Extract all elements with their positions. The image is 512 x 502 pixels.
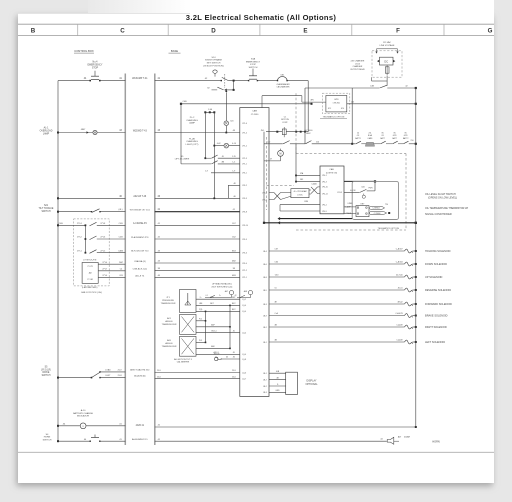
svg-text:27Y-4: 27Y-4: [102, 262, 107, 264]
svg-text:45: 45: [233, 330, 235, 332]
svg-text:TRANSDUCER: TRANSDUCER: [162, 323, 177, 326]
svg-text:TELEMATICS OPTION: TELEMATICS OPTION: [378, 227, 400, 230]
svg-text:OPTIONAL: OPTIONAL: [305, 383, 318, 386]
svg-text:A021-B T-46: A021-B T-46: [133, 195, 147, 198]
svg-text:TILT TONGUE: TILT TONGUE: [39, 208, 54, 210]
wire display pin D: [269, 385, 286, 387]
svg-text:C-SEN04: C-SEN04: [372, 208, 379, 210]
transducer collector vertical B: [229, 305, 231, 348]
wire display pin 4LB: [269, 372, 286, 374]
wire solenoid row LEFT SOLENOID: [269, 341, 404, 343]
svg-text:EMERGENCY: EMERGENCY: [246, 61, 261, 63]
svg-text:JB-3: JB-3: [263, 392, 267, 394]
svg-text:T20: T20: [385, 204, 388, 206]
svg-text:LIFT & LOWER: LIFT & LOWER: [175, 159, 190, 161]
svg-text:AMS TO(AUTH) 350: AMS TO(AUTH) 350: [130, 369, 150, 372]
svg-text:ANGLE: ANGLE: [165, 320, 173, 323]
svg-text:115 VAC: 115 VAC: [383, 41, 392, 44]
svg-text:JQ-8: JQ-8: [242, 359, 246, 361]
svg-text:JP4-2: JP4-2: [322, 204, 327, 206]
wire GPS output row: [347, 103, 416, 105]
wire transducer row 320.8: [196, 320, 206, 322]
wire vertical x352: [351, 88, 353, 144]
joystick switch row 2 y239.0: [85, 238, 87, 240]
svg-text:(OPENS ON LOW LEVEL): (OPENS ON LOW LEVEL): [428, 196, 457, 199]
svg-text:41(B)H: 41(B)H: [404, 437, 411, 439]
heavy bus wire pair: [278, 217, 281, 220]
svg-text:RIGHT SOLENOID: RIGHT SOLENOID: [425, 325, 447, 329]
svg-text:CHARGING: CHARGING: [186, 119, 198, 122]
svg-text:C-A 0YB: C-A 0YB: [395, 312, 403, 315]
wire display pin 4B: [269, 379, 286, 381]
svg-text:A5-ACM (A): A5-ACM (A): [134, 374, 146, 377]
svg-text:4E-02: 4E-02: [398, 301, 403, 303]
svg-text:C40: C40: [267, 141, 270, 143]
wire row 172.8: [211, 172, 240, 174]
wire pin row A right segment: [155, 262, 240, 264]
svg-text:C63: C63: [119, 275, 122, 277]
wire into CAB pin JP4-2: [280, 204, 320, 206]
svg-text:IGN/STOP/BASE: IGN/STOP/BASE: [205, 59, 222, 62]
svg-text:46: 46: [233, 357, 235, 359]
GPS telematics dashed box: [322, 93, 350, 113]
CAB box pin labels: [322, 175, 328, 213]
svg-text:JP4-10: JP4-10: [242, 225, 248, 227]
svg-text:TRANSDUCER: TRANSDUCER: [162, 345, 177, 348]
svg-text:24V CHARGER: 24V CHARGER: [351, 60, 365, 63]
svg-text:211: 211: [368, 132, 371, 134]
loop tag C-T0604: [369, 212, 387, 215]
svg-text:4-02: 4-02: [217, 143, 221, 145]
wire vertical x214: [213, 112, 215, 198]
svg-text:JB-4: JB-4: [263, 251, 267, 253]
wire into CAB pin JP4-1: [296, 174, 320, 176]
svg-text:OVERLOAD: OVERLOAD: [40, 129, 53, 132]
svg-text:S21: S21: [44, 205, 49, 207]
display connector box: [286, 372, 298, 394]
svg-text:JP1-2: JP1-2: [242, 145, 247, 147]
wire vertical x296: [295, 144, 297, 182]
svg-text:27Y-6: 27Y-6: [100, 237, 105, 239]
battery disconnect contact row: [355, 132, 408, 139]
joystick pin row C y277.4: [98, 276, 125, 278]
svg-text:WTONGUE OK T-51: WTONGUE OK T-51: [130, 209, 151, 211]
svg-text:AL-1: AL-1: [44, 127, 50, 130]
svg-text:40 + PROGRAM: 40 + PROGRAM: [294, 190, 308, 193]
wire heavy into relay box top: [344, 180, 375, 182]
wire joystick row1 right segment: [155, 224, 240, 226]
svg-text:PL2: PL2: [199, 319, 202, 321]
wire display pin GND: [269, 391, 286, 393]
svg-text:51: 51: [275, 288, 277, 290]
svg-text:TELEMATICS OPTION: TELEMATICS OPTION: [323, 116, 345, 119]
svg-text:No.4: No.4: [93, 62, 99, 64]
DC converter box: [380, 57, 394, 65]
svg-text:STOP: STOP: [250, 64, 256, 66]
wire vertical x264: [263, 132, 265, 223]
svg-text:CHARGER: CHARGER: [353, 65, 363, 68]
wire corner down x308: [287, 80, 308, 82]
svg-text:C4B: C4B: [370, 86, 375, 88]
svg-text:C8A03A-(3): C8A03A-(3): [134, 260, 146, 263]
svg-text:24: 24: [357, 132, 359, 134]
svg-text:BATT1: BATT1: [355, 137, 360, 140]
svg-text:PL-AV: PL-AV: [189, 137, 196, 140]
wire joystick row2 right segment: [155, 238, 240, 240]
svg-text:520: 520: [230, 121, 233, 123]
svg-text:BRAKE SOLENOID: BRAKE SOLENOID: [425, 314, 448, 318]
svg-text:LINE VOLTAGE: LINE VOLTAGE: [380, 44, 395, 47]
svg-text:C4B: C4B: [119, 237, 124, 239]
svg-text:JP4-10: JP4-10: [322, 187, 328, 189]
svg-text:STOP: STOP: [92, 67, 99, 69]
svg-text:JA2: JA2: [88, 272, 91, 275]
svg-text:210: 210: [316, 141, 319, 143]
svg-text:J-1: J-1: [205, 295, 207, 297]
svg-text:JOYSTICK-P/N: JOYSTICK-P/N: [83, 259, 97, 261]
wire horn row right segment: [155, 440, 387, 442]
svg-text:C60: C60: [275, 262, 278, 264]
svg-text:CB/CHARGER: CB/CHARGER: [277, 85, 291, 88]
svg-text:JQ-4: JQ-4: [242, 311, 246, 313]
svg-text:W2DMD T-43: W2DMD T-43: [133, 130, 148, 132]
svg-text:TRANSDUCER: TRANSDUCER: [161, 302, 176, 305]
svg-text:DC: DC: [384, 59, 388, 63]
svg-text:ALLMOTION TILT II: ALLMOTION TILT II: [174, 358, 192, 361]
svg-text:M: M: [280, 153, 282, 155]
svg-text:GND: GND: [275, 390, 280, 392]
svg-text:SWITCH: SWITCH: [43, 440, 52, 442]
wire left rail vertical: [57, 81, 59, 442]
header grid row: [18, 23, 494, 25]
wire key to lamp vertical: [225, 92, 227, 121]
svg-text:2Y GR: 2Y GR: [87, 279, 93, 281]
svg-text:4P0: 4P0: [310, 100, 313, 102]
svg-text:48: 48: [233, 183, 235, 185]
svg-text:C: C: [120, 28, 125, 35]
wire transducer row 332.6: [196, 332, 240, 334]
motor indicator M: [278, 150, 284, 156]
program logic module: [281, 192, 291, 194]
transducer collector vertical A: [205, 311, 207, 342]
svg-text:PL3: PL3: [199, 340, 202, 342]
svg-text:A-CRANE-P4: A-CRANE-P4: [133, 222, 147, 225]
svg-text:JP1-3: JP1-3: [242, 158, 247, 160]
svg-text:CONTROL BOX: CONTROL BOX: [74, 49, 94, 53]
wire solenoid row REVERSE SOLENOID: [269, 289, 404, 291]
svg-text:(LIGHTS ON): (LIGHTS ON): [326, 172, 337, 174]
svg-text:25-9: 25-9: [157, 370, 161, 372]
svg-text:C-A-4E: C-A-4E: [396, 323, 403, 326]
svg-text:(NOT SWITCHED 0-00): (NOT SWITCHED 0-00): [212, 286, 233, 288]
svg-text:LEFT SOLENOID: LEFT SOLENOID: [425, 340, 445, 344]
svg-text:JQ-2: JQ-2: [242, 299, 246, 301]
svg-text:BLH-CELICR T10: BLH-CELICR T10: [131, 251, 149, 253]
svg-text:T-60: T-60: [275, 275, 279, 277]
svg-text:JB-6: JB-6: [263, 264, 267, 266]
controller left pin labels: [242, 123, 248, 380]
svg-text:F: F: [396, 28, 400, 35]
wire drive row load right segment: [155, 372, 240, 374]
svg-text:C4B: C4B: [182, 101, 187, 103]
svg-text:C-T0604: C-T0604: [374, 213, 381, 215]
joystick dashed enclosure: [74, 219, 110, 286]
wire vertical x305 from charger row: [304, 88, 306, 144]
wire beeper row 359: [221, 358, 240, 360]
wire main feed row y80.5: [58, 80, 90, 82]
svg-text:OUTPUT RELAY: OUTPUT RELAY: [350, 68, 365, 71]
transposed pair right crossover: [309, 189, 311, 191]
svg-text:A044/4MM-P-15: A044/4MM-P-15: [132, 438, 148, 441]
svg-text:HORN: HORN: [432, 440, 440, 443]
wire solenoid row HOLDING SOLENOID: [269, 250, 404, 252]
svg-text:DOWN SOLENOID: DOWN SOLENOID: [425, 262, 447, 266]
svg-text:CAB JOYSTICK (OH): CAB JOYSTICK (OH): [81, 291, 102, 294]
svg-text:C4B3: C4B3: [118, 250, 124, 252]
svg-text:4P-2: 4P-2: [328, 108, 331, 110]
svg-text:C6M: C6M: [304, 201, 308, 203]
svg-text:JB-9: JB-9: [263, 315, 267, 317]
svg-text:JB-2: JB-2: [263, 386, 267, 388]
svg-text:4P-4: 4P-4: [341, 108, 344, 110]
svg-text:BATT2: BATT2: [403, 137, 408, 140]
svg-text:210: 210: [411, 140, 414, 142]
wire vertical x205: [204, 112, 206, 158]
wire solenoid row RIGHT SOLENOID: [269, 326, 404, 328]
svg-text:CAM: CAM: [252, 110, 257, 113]
svg-text:JP1-4: JP1-4: [242, 132, 247, 134]
svg-text:JP4-4: JP4-4: [242, 263, 247, 265]
svg-text:A07: A07: [398, 436, 401, 439]
svg-text:JB-1: JB-1: [263, 342, 267, 344]
sensor bulb A07: [229, 291, 233, 295]
wire joystick row3 right segment: [155, 252, 240, 254]
svg-text:C-A 007: C-A 007: [396, 247, 403, 250]
wire transducer row 354.4: [196, 353, 240, 355]
svg-text:SWITCH: SWITCH: [42, 375, 51, 377]
svg-text:2(3): 2(3): [199, 309, 203, 311]
bus bulkhead line right: [154, 74, 156, 446]
svg-text:25-9: 25-9: [232, 370, 236, 372]
GPS module LTE-900: [326, 96, 347, 112]
fuse F1: [385, 67, 389, 73]
transposed pair left crossover: [269, 192, 274, 194]
svg-text:JQ-4: JQ-4: [242, 305, 246, 307]
svg-text:C-A66: C-A66: [311, 182, 316, 185]
joystick common vertical: [84, 225, 86, 252]
svg-text:JP1-1: JP1-1: [242, 277, 247, 279]
wire solenoid row UP SOLENOID: [269, 276, 404, 278]
svg-text:2007: 2007: [119, 262, 123, 264]
wire transducer row 299.2: [196, 298, 240, 300]
svg-text:27Y-4: 27Y-4: [77, 223, 82, 225]
svg-text:LIGHT (OPT): LIGHT (OPT): [186, 144, 199, 146]
svg-text:2Y YR: 2Y YR: [87, 266, 93, 268]
svg-text:4A05 41: 4A05 41: [136, 424, 145, 427]
svg-text:A07: A07: [225, 290, 228, 293]
joystick grip box: [82, 263, 98, 284]
wire transducer row 305.4: [196, 304, 240, 306]
svg-text:25-6: 25-6: [157, 376, 161, 378]
seal contact row: [205, 297, 232, 299]
svg-text:LR-2 (LR): LR-2 (LR): [41, 369, 51, 371]
charger dashed enclosure: [372, 51, 402, 77]
svg-text:JB-5: JB-5: [263, 290, 267, 292]
svg-text:D: D: [211, 28, 216, 35]
relay contact 4-LOW: [374, 181, 376, 191]
svg-text:LEFT: LEFT: [106, 375, 112, 377]
svg-text:JB-1: JB-1: [263, 373, 267, 375]
svg-text:REVERSE SOLENOID: REVERSE SOLENOID: [425, 288, 451, 292]
wire into CAB pin JP4-3: [296, 181, 320, 183]
svg-text:45: 45: [222, 156, 224, 158]
bus bulkhead line left: [124, 74, 126, 446]
wire lamp row right segment to controller: [155, 132, 240, 134]
svg-text:JP1-1: JP1-1: [242, 164, 247, 166]
svg-text:JP4-1: JP4-1: [322, 175, 327, 177]
svg-text:(IN IDLE POSITION): (IN IDLE POSITION): [203, 65, 223, 67]
svg-text:BMC: BMC: [306, 133, 311, 135]
wire row 185.3 with corner: [228, 184, 240, 186]
svg-text:JY3-4: JY3-4: [262, 199, 267, 201]
svg-text:40-51: 40-51: [398, 287, 403, 289]
wire row 41 heavy right segment: [155, 211, 240, 213]
wire solenoid row DOWN SOLENOID: [269, 263, 404, 265]
svg-text:27Y-8: 27Y-8: [100, 223, 105, 225]
svg-text:A6Y09: A6Y09: [214, 353, 220, 356]
footer rule: [18, 451, 494, 453]
svg-text:JB-3: JB-3: [263, 304, 267, 306]
wire pin row B right segment: [155, 269, 240, 271]
svg-text:C67: C67: [275, 249, 278, 251]
svg-text:SWITCH: SWITCH: [41, 211, 50, 213]
telematics dashed boundary: [295, 93, 297, 153]
svg-text:JB-7: JB-7: [263, 379, 267, 381]
svg-text:JP4-1: JP4-1: [242, 173, 247, 175]
svg-text:27Y-5: 27Y-5: [100, 250, 105, 252]
svg-text:JB-2: JB-2: [263, 327, 267, 329]
svg-text:JQ-6: JQ-6: [242, 372, 246, 374]
svg-text:LOGIC: LOGIC: [297, 195, 303, 197]
svg-text:S3A: S3A: [251, 58, 256, 61]
svg-text:45: 45: [233, 352, 235, 354]
wire transducer row 311.4: [196, 310, 240, 312]
svg-text:4M: 4M: [221, 162, 224, 164]
svg-text:42: 42: [235, 295, 237, 297]
svg-text:FORWARD SOLENOID: FORWARD SOLENOID: [425, 302, 452, 306]
wire solenoid row BRAKE SOLENOID: [269, 315, 404, 317]
svg-text:41A BREAKER: 41A BREAKER: [276, 83, 290, 86]
svg-text:A08: A08: [244, 290, 247, 293]
svg-text:INDICATOR: INDICATOR: [77, 415, 89, 418]
svg-text:EMERGENCY: EMERGENCY: [87, 64, 102, 66]
svg-text:LAMP: LAMP: [189, 122, 195, 125]
charger relay wires: [371, 77, 373, 81]
svg-text:CAL BEEPER: CAL BEEPER: [177, 361, 190, 364]
svg-text:LTE-900: LTE-900: [333, 103, 340, 105]
svg-text:3.2L Electrical Schematic (Al: 3.2L Electrical Schematic (All Options): [186, 13, 337, 22]
svg-text:JQ-4: JQ-4: [242, 332, 246, 334]
svg-text:LOAD: LOAD: [105, 369, 111, 372]
wire row 46 y198.3: [57, 197, 59, 199]
svg-text:1-15: 1-15: [232, 156, 236, 158]
svg-text:JP4-6: JP4-6: [242, 253, 247, 255]
svg-text:PRESSURE: PRESSURE: [162, 300, 174, 302]
measurement bracket: [377, 48, 398, 50]
svg-text:27Y-1: 27Y-1: [77, 250, 82, 252]
svg-text:A2L-8 T4: A2L-8 T4: [135, 274, 145, 277]
svg-text:CHARGING: CHARGING: [186, 140, 198, 143]
controller main box: [240, 108, 269, 397]
svg-text:G: G: [488, 28, 493, 35]
svg-text:4-LOW: 4-LOW: [350, 190, 356, 192]
svg-text:25-6: 25-6: [232, 376, 236, 378]
controller right pin labels: [262, 192, 267, 394]
svg-text:40-T-60: 40-T-60: [396, 274, 403, 276]
svg-text:C4: C4: [120, 269, 122, 271]
svg-text:C4B: C4B: [59, 223, 64, 225]
joystick pin row A y264.2: [98, 263, 125, 265]
svg-text:27Y-2: 27Y-2: [77, 237, 82, 239]
wire transducer row 326.8: [196, 326, 230, 328]
svg-text:1-9: 1-9: [232, 170, 235, 172]
svg-text:(LASTWATCHED): (LASTWATCHED): [82, 286, 98, 289]
wire solenoid row FORWARD SOLENOID: [269, 303, 404, 305]
svg-text:1-9: 1-9: [205, 170, 208, 172]
svg-text:JP4-5: JP4-5: [322, 211, 327, 213]
CAB lights-on box: [320, 166, 344, 214]
svg-text:2+: 2+: [219, 295, 221, 297]
svg-text:JP4-3: JP4-3: [242, 198, 247, 200]
svg-text:JQ-7: JQ-7: [242, 378, 246, 380]
svg-text:JP4-2: JP4-2: [242, 185, 247, 187]
horn annunciator: [387, 437, 394, 444]
svg-text:JP4-9: JP4-9: [337, 192, 342, 194]
svg-text:JP4-8: JP4-8: [242, 212, 247, 214]
svg-text:UP SOLENOID: UP SOLENOID: [425, 275, 443, 279]
right rail vertical wire: [415, 88, 417, 427]
wire vertical x181: [180, 104, 182, 164]
svg-text:GPS: GPS: [334, 99, 339, 101]
svg-text:LV-05: LV-05: [355, 63, 360, 65]
svg-text:27Y-7: 27Y-7: [102, 269, 107, 271]
svg-text:C4MB: C4MB: [347, 203, 353, 205]
joystick switch row 3 y252.7: [85, 252, 87, 254]
svg-text:CARS: CARS: [367, 137, 373, 140]
svg-text:C-A-4E: C-A-4E: [396, 338, 403, 341]
svg-text:C06: C06: [361, 186, 364, 188]
svg-text:C-A 004: C-A 004: [396, 260, 403, 263]
svg-text:JP4-3: JP4-3: [322, 181, 327, 183]
svg-text:J7-1990: J7-1990: [251, 114, 259, 116]
svg-text:C68LACK-1(2): C68LACK-1(2): [133, 268, 148, 271]
wire drive row left right segment: [155, 378, 240, 380]
svg-text:B52-1: B52-1: [211, 330, 216, 332]
svg-text:ANGLE: ANGLE: [165, 342, 173, 345]
svg-text:JP1-2: JP1-2: [242, 270, 247, 272]
svg-text:JQ-4: JQ-4: [242, 354, 246, 356]
svg-text:4-10: 4-10: [232, 143, 236, 145]
svg-text:CAB: CAB: [329, 168, 334, 171]
svg-text:B: B: [31, 28, 36, 35]
svg-text:C4B: C4B: [119, 223, 124, 225]
svg-text:KEY SWITCH: KEY SWITCH: [207, 63, 221, 65]
svg-text:(IF SEAL INSTALLED): (IF SEAL INSTALLED): [212, 283, 232, 286]
svg-text:2+: 2+: [200, 297, 202, 299]
svg-text:WASUMP T-41: WASUMP T-41: [132, 77, 148, 80]
svg-text:DRIVE: DRIVE: [43, 372, 50, 374]
svg-text:CONT.: CONT.: [282, 122, 288, 124]
